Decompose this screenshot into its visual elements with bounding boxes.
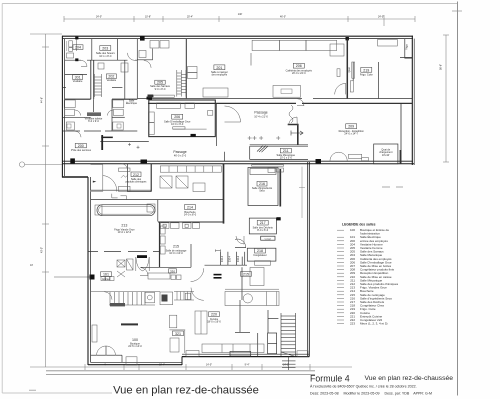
left dimension line xyxy=(45,34,47,367)
svg-text:14'-0": 14'-0" xyxy=(206,364,212,367)
black double dash xyxy=(214,274,222,276)
svg-text:Vestiaire: Vestiaire xyxy=(73,80,83,83)
svg-text:216: 216 xyxy=(259,182,265,186)
svg-text:44'-6": 44'-6" xyxy=(41,97,44,103)
door hatch top wall xyxy=(140,36,145,41)
room 212 boxes xyxy=(160,176,172,188)
svg-text:215: 215 xyxy=(173,245,179,249)
door big top passage xyxy=(225,106,241,122)
closet near stairs xyxy=(268,333,277,354)
equip row under passage x250-284 xyxy=(252,165,284,166)
Conge box xyxy=(261,236,275,240)
wall x157.5 xyxy=(151,164,153,192)
svg-text:204: 204 xyxy=(75,46,81,50)
staircase bottom right xyxy=(281,313,296,357)
X mark xyxy=(117,271,125,277)
wall y199.6 (213/214 north) xyxy=(91,199,224,201)
svg-text:Passage: Passage xyxy=(254,111,267,115)
wall bar x280 xyxy=(279,169,281,207)
svg-text:Congé: Congé xyxy=(265,238,272,240)
room 212 counter row xyxy=(119,168,130,172)
mezz box top right xyxy=(378,39,398,46)
svg-text:330-6: 330-6 xyxy=(237,255,240,262)
svg-text:220: 220 xyxy=(211,313,217,317)
door 209 on passage xyxy=(330,152,347,161)
fridge 201 xyxy=(330,44,344,56)
label 211 xyxy=(280,148,291,153)
toilets top-left block xyxy=(69,41,73,47)
svg-text:10'x10': 10'x10' xyxy=(382,154,390,157)
top-right closet xyxy=(400,39,412,59)
door gap passage top xyxy=(289,117,298,126)
corner step outside xyxy=(126,357,137,365)
room 211 box xyxy=(250,146,308,159)
svg-text:22'-5 x 14'-0: 22'-5 x 14'-0 xyxy=(128,345,142,348)
svg-text:10'-1 x 3'-0: 10'-1 x 3'-0 xyxy=(280,157,293,160)
svg-text:203: 203 xyxy=(102,46,108,50)
wall y103.4 passage north xyxy=(148,102,296,104)
svg-text:209: 209 xyxy=(348,125,354,129)
svg-text:201: 201 xyxy=(216,66,222,70)
cafeteria tables xyxy=(273,86,301,98)
svg-text:46'-0 x 5'-0: 46'-0 x 5'-0 xyxy=(174,155,187,158)
label 100 xyxy=(132,338,138,342)
fixtures kitchen top xyxy=(95,205,102,215)
door room 212 xyxy=(121,164,128,171)
toilet kitchen xyxy=(145,292,155,303)
staircase room 205 xyxy=(177,70,186,97)
lower passage north wall pieces xyxy=(100,141,149,143)
label 321 xyxy=(173,331,184,336)
label 217 xyxy=(257,220,268,225)
outer wall bottom left segment xyxy=(88,364,182,366)
shelf left bottom xyxy=(92,325,97,342)
svg-text:219: 219 xyxy=(363,68,369,72)
svg-text:330-4: 330-4 xyxy=(229,255,232,262)
tall cabinets xyxy=(195,311,207,334)
room 217 box xyxy=(249,218,276,234)
cabinets right kitchen xyxy=(250,268,264,286)
diagonal box xyxy=(127,259,134,270)
label 214 xyxy=(185,205,196,210)
reference marker bottom-left xyxy=(54,276,90,278)
label 202 xyxy=(106,74,116,79)
comb right of dark room xyxy=(174,292,194,301)
doors top-left block xyxy=(81,60,87,66)
svg-text:56'-6": 56'-6" xyxy=(440,64,443,70)
long passage south wall xyxy=(62,160,413,162)
inner floor line SW xyxy=(91,354,122,356)
label 206b emballage xyxy=(172,114,183,119)
label 215 xyxy=(173,245,179,249)
top dimension line xyxy=(64,18,415,20)
outer wall right upper xyxy=(411,36,413,165)
svg-text:10'-0 x 10'-0: 10'-0 x 10'-0 xyxy=(169,252,183,255)
wall y267.3 (215 south) xyxy=(141,266,191,268)
321 cabinets xyxy=(170,315,177,328)
outer wall jog xyxy=(62,176,88,178)
svg-text:206: 206 xyxy=(296,64,302,68)
hatch block double door xyxy=(137,255,147,258)
svg-text:330: 330 xyxy=(170,269,175,273)
svg-text:212: 212 xyxy=(133,173,139,177)
right section inner rooms xyxy=(374,144,398,164)
wall x257.7 xyxy=(257,333,259,357)
room 212 box xyxy=(128,164,152,192)
svg-text:Vue en plan rez-de-chaussée: Vue en plan rez-de-chaussée xyxy=(113,385,259,397)
svg-text:À l'exclusivité de 8409-6507 Q: À l'exclusivité de 8409-6507 Québec inc.… xyxy=(310,384,417,388)
svg-text:24'-0 x 14'-7: 24'-0 x 14'-7 xyxy=(344,132,358,135)
tubs room 213 xyxy=(97,205,155,216)
svg-text:Secs: Secs xyxy=(259,189,265,192)
svg-text:100: 100 xyxy=(350,228,355,232)
counters 206 xyxy=(149,112,155,123)
svg-text:Vue en plan rez-de-chaussée: Vue en plan rez-de-chaussée xyxy=(365,375,454,382)
break line wavy in passage xyxy=(289,105,293,123)
hatched ramp xyxy=(257,146,268,153)
svg-text:Quai: Quai xyxy=(348,67,351,73)
wall y253.5 (213 south) xyxy=(88,251,160,253)
outer wall right lower xyxy=(306,162,308,357)
svg-text:223: 223 xyxy=(350,322,355,326)
outer wall bottom step xyxy=(181,357,183,366)
door arc 215 S xyxy=(191,268,204,281)
room 215 east wall xyxy=(190,244,192,267)
label 301 xyxy=(73,75,83,80)
svg-text:des employés: des employés xyxy=(212,74,228,77)
svg-text:6'-0 x 9'-0: 6'-0 x 9'-0 xyxy=(88,120,99,123)
door hatch wall 346 top xyxy=(346,37,349,40)
reference bubble left xyxy=(19,162,24,167)
door hatch on passage west end xyxy=(70,158,75,163)
svg-text:10'-1 x 8'-0: 10'-1 x 8'-0 xyxy=(99,55,112,58)
wall y190 xyxy=(91,189,151,191)
boutique counter xyxy=(148,273,170,279)
black marker 217 xyxy=(276,217,280,220)
door storefront xyxy=(140,268,148,276)
svg-text:produits chimiques: produits chimiques xyxy=(126,181,148,184)
svg-text:16'-0 x 9'-0: 16'-0 x 9'-0 xyxy=(171,123,184,126)
svg-text:161: 161 xyxy=(103,273,109,277)
svg-text:206: 206 xyxy=(174,115,180,119)
svg-text:20'-4": 20'-4" xyxy=(187,16,193,19)
wall y221.5 (214 south) xyxy=(158,221,224,223)
svg-text:24'-0": 24'-0" xyxy=(378,16,384,19)
svg-text:215: 215 xyxy=(243,272,249,276)
svg-text:P'tite des services: P'tite des services xyxy=(71,149,92,152)
svg-text:Frigo. Cuite: Frigo. Cuite xyxy=(360,74,374,77)
svg-text:10'-8": 10'-8" xyxy=(145,16,151,19)
shelf right room xyxy=(352,62,355,78)
label 206 cafeteria xyxy=(293,63,304,68)
page border left xyxy=(1,4,3,394)
small marks right of plan xyxy=(382,186,390,188)
vertical small store labels xyxy=(221,44,409,262)
label 330 xyxy=(169,269,177,274)
room sub texts xyxy=(71,52,393,348)
label 200 xyxy=(75,143,86,148)
wall y98.5 under rooms 205/206 xyxy=(137,98,302,100)
dark table xyxy=(121,323,138,325)
svg-text:Dess: 2023-05-08 Modifier: Dess: 2023-05-08 Modifier le 2023-05-09 … xyxy=(310,391,432,395)
fixtures along 209 area xyxy=(349,154,362,158)
wall x137 (205 west) xyxy=(136,39,138,99)
page border top xyxy=(2,3,457,5)
room 216 box xyxy=(248,168,278,206)
outer wall left upper xyxy=(61,36,63,178)
label 220 xyxy=(209,312,220,317)
dark room SW kitchen xyxy=(160,292,173,305)
svg-text:9'-4": 9'-4" xyxy=(245,364,250,367)
label 219 xyxy=(361,67,372,72)
top-left block walls xyxy=(91,39,93,61)
tick on right border xyxy=(452,10,462,12)
toilet 205 xyxy=(139,51,146,58)
svg-text:Congélateur: Congélateur xyxy=(253,254,267,257)
upper passage west wall x216.5 xyxy=(216,103,218,146)
svg-text:20'-0 x 24'-0: 20'-0 x 24'-0 xyxy=(292,72,306,75)
outer wall bottom mid segment xyxy=(182,356,309,358)
wall x401 thick corner xyxy=(400,150,402,164)
double doors bottom left xyxy=(97,346,107,356)
svg-text:100: 100 xyxy=(132,338,138,342)
svg-text:10': 10' xyxy=(30,264,34,267)
svg-text:Passage: Passage xyxy=(173,150,186,154)
door cafeteria SE xyxy=(335,83,346,94)
svg-text:Formule 4: Formule 4 xyxy=(310,373,350,383)
page border right xyxy=(457,2,459,396)
wall x297.8 (elbow below door gap) xyxy=(288,125,298,145)
svg-text:14'-0 x 12'-0: 14'-0 x 12'-0 xyxy=(118,231,132,234)
svg-text:140': 140' xyxy=(238,13,243,16)
room 213 east wall xyxy=(157,200,159,222)
washer squares 161 xyxy=(101,277,105,281)
dishwash comb xyxy=(91,292,160,307)
kitchen east wall area xyxy=(241,267,243,300)
label 204 xyxy=(73,45,83,50)
wall x186 (205 east) xyxy=(185,39,187,99)
washers mid kitchen xyxy=(171,275,176,280)
staircase top-left xyxy=(95,74,102,97)
dimension texts xyxy=(30,13,443,367)
svg-text:Mezz (1, 2, 3, 4 et 5): Mezz (1, 2, 3, 4 et 5) xyxy=(360,322,388,326)
boutique door box xyxy=(185,293,190,299)
label 212 xyxy=(131,172,141,177)
svg-text:Entrée: Entrée xyxy=(102,278,110,281)
room 218 box xyxy=(247,248,276,261)
svg-text:217: 217 xyxy=(260,221,266,225)
double door arch xyxy=(136,257,149,271)
svg-text:46'-0": 46'-0" xyxy=(280,16,286,19)
X-box fixture xyxy=(117,260,125,267)
store rooms xyxy=(220,252,222,265)
svg-text:14'-0 x 8'-0: 14'-0 x 8'-0 xyxy=(184,214,197,217)
svg-text:200: 200 xyxy=(78,144,84,148)
label 218 xyxy=(255,248,266,253)
exterior stairs below xyxy=(282,357,296,371)
label 161 xyxy=(101,272,112,277)
svg-text:205: 205 xyxy=(157,81,163,85)
svg-text:40'-0": 40'-0" xyxy=(41,247,44,253)
svg-text:10'-4 x 21'-0: 10'-4 x 21'-0 xyxy=(254,115,268,118)
wall x159.5 (215 west) xyxy=(159,222,161,268)
cafeteria east wall x347 xyxy=(346,39,348,99)
svg-text:18'-0 x 16'-0: 18'-0 x 16'-0 xyxy=(207,320,221,323)
room 206 box xyxy=(149,100,216,137)
svg-text:330-3: 330-3 xyxy=(221,255,224,262)
right room 219 box xyxy=(378,62,380,99)
label 213 xyxy=(121,224,127,228)
svg-text:9'-0 x 8'-0: 9'-0 x 8'-0 xyxy=(155,88,166,91)
bump on bottom wall xyxy=(297,351,308,357)
washers room 205 xyxy=(150,41,159,49)
outer wall left lower xyxy=(87,177,89,365)
svg-text:8'-0 x 6'-0: 8'-0 x 6'-0 xyxy=(257,229,268,232)
svg-text:LEGENDE des salles: LEGENDE des salles xyxy=(342,222,376,226)
thick wall x223.5 xyxy=(223,164,225,224)
svg-text:321: 321 xyxy=(175,332,181,336)
label 209 xyxy=(346,124,357,129)
svg-text:Frigo: Frigo xyxy=(406,44,409,50)
plus marks row xyxy=(248,136,281,140)
svg-text:24'-0": 24'-0" xyxy=(96,16,102,19)
page border bottom xyxy=(2,392,112,394)
label 216 xyxy=(257,181,267,186)
island with stove xyxy=(225,288,279,290)
svg-text:218: 218 xyxy=(257,249,263,253)
svg-text:Électrique: Électrique xyxy=(126,102,138,105)
label 203 xyxy=(100,46,111,51)
right dimension line xyxy=(445,35,447,162)
left dimension leader xyxy=(30,33,62,35)
door arrows near 211 xyxy=(291,131,303,136)
outer wall top xyxy=(62,35,413,37)
svg-text:211: 211 xyxy=(283,149,289,153)
wall y144.8 xyxy=(250,144,308,146)
room 216 counters xyxy=(250,169,276,175)
bottom dimension line xyxy=(30,366,352,368)
svg-text:213: 213 xyxy=(121,224,127,228)
label 205 xyxy=(214,65,225,70)
door hatch mid bottom xyxy=(141,160,148,164)
interior dim line xyxy=(301,167,303,218)
svg-text:301: 301 xyxy=(75,76,81,80)
door hatch on 209 wall xyxy=(316,159,322,163)
cafeteria cabinets top row xyxy=(252,40,280,50)
svg-text:214: 214 xyxy=(187,206,193,210)
svg-text:Vestiaire: Vestiaire xyxy=(107,79,117,82)
counter band above bottom wall xyxy=(202,344,264,353)
